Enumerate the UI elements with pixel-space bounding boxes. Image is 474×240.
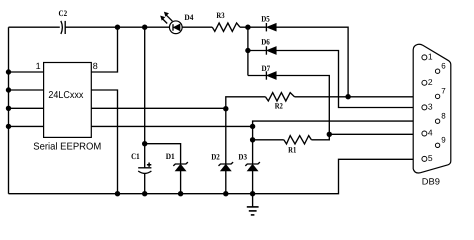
DB9 pin 9	[435, 136, 446, 148]
DB9 pin 1	[422, 52, 433, 62]
DB9 pin 3	[422, 102, 433, 112]
svg-text:D3: D3	[238, 152, 247, 161]
svg-text:3: 3	[428, 102, 433, 112]
node: bottom rail dot / C1	[142, 191, 147, 196]
node: junction R2 output / D5 drop	[346, 94, 351, 99]
wire: top rail R3 to D5	[240, 26, 266, 28]
resistor R2	[265, 93, 294, 111]
wire: IC pin7 right and down to bottom rail	[91, 90, 117, 194]
wire: IC pin4 to left rail	[9, 125, 44, 127]
wire: D6 cathode stub	[248, 50, 267, 52]
wire: drop from pin5 row to D3	[252, 126, 254, 163]
svg-text:24LCxxx: 24LCxxx	[48, 90, 83, 101]
capacitor C2	[59, 9, 68, 34]
svg-text:D5: D5	[261, 14, 270, 23]
svg-text:7: 7	[441, 87, 446, 96]
wire: IC pin3 to left rail	[9, 107, 44, 109]
svg-text:2: 2	[428, 77, 433, 87]
node: junction C1 / D1	[142, 141, 147, 146]
wire: D2 drop from R2 node	[225, 109, 227, 164]
svg-text:D7: D7	[262, 64, 271, 73]
svg-text:6: 6	[441, 61, 446, 70]
wire: top rail left segment to C2	[9, 26, 60, 28]
svg-text:D4: D4	[184, 13, 193, 22]
node: junction pin5 row / R1-D3 drop	[250, 124, 255, 129]
svg-text:C2: C2	[59, 9, 68, 18]
svg-text:8: 8	[93, 61, 98, 71]
wire: D6 anode right, down, to DB9 pin3	[276, 51, 421, 108]
ground	[247, 194, 259, 215]
svg-text:8: 8	[441, 111, 446, 120]
node: junction D7 / R1 / pin4 wire	[327, 132, 332, 137]
wire: IC pin2 to left rail	[9, 89, 44, 91]
diode D5	[261, 14, 276, 31]
svg-text:DB9: DB9	[422, 176, 440, 186]
wire: link to D1 top	[145, 144, 181, 164]
DB9 pin 8	[435, 111, 446, 123]
resistor R3	[212, 11, 240, 32]
node: rail dot pin2	[6, 88, 11, 93]
DB9 pin 2	[422, 77, 433, 87]
wire: drop from top rail node to D6 and D7 rows	[247, 27, 249, 75]
wire: left ground rail vertical	[8, 27, 10, 194]
node: bottom rail dot / pin7 drop	[115, 191, 120, 196]
node: junction R1 left	[250, 137, 255, 142]
wire: R1 left lead	[253, 139, 284, 141]
node: rail dot pin3	[6, 106, 11, 111]
wire: IC pin6 row to R2 node	[91, 107, 226, 109]
node: bottom rail dot / D1	[178, 191, 183, 196]
wire: R2 output to DB9 pin7	[295, 96, 435, 98]
DB9 pin 4	[422, 128, 433, 138]
node: rail dot pin1	[6, 70, 11, 75]
svg-text:1: 1	[428, 52, 433, 62]
resistor R1	[284, 136, 312, 155]
svg-text:9: 9	[441, 136, 446, 145]
IC U1 24LCxxx body	[33, 63, 101, 153]
wire: IC pin1 to left rail	[9, 71, 44, 73]
svg-text:R2: R2	[275, 101, 283, 110]
wire: D7 cathode stub	[248, 75, 267, 77]
LED D4	[161, 12, 194, 33]
zener diode D3	[238, 152, 260, 193]
connector J1 DB9 outline	[413, 44, 451, 173]
svg-text:5: 5	[428, 153, 433, 163]
svg-text:D1: D1	[166, 152, 175, 161]
svg-text:R3: R3	[216, 11, 224, 20]
wire: R2 node up and right to R2	[226, 97, 266, 109]
DB9 pin 6	[435, 61, 446, 73]
node: junction top rail / D6-D7 drop	[246, 25, 251, 30]
wire: D7 anode right then down to R1/pin4 node	[276, 76, 329, 135]
svg-text:Serial EEPROM: Serial EEPROM	[33, 141, 101, 152]
svg-text:D2: D2	[211, 152, 220, 161]
svg-text:C1: C1	[131, 152, 140, 161]
node: rail dot pin4	[6, 124, 11, 129]
wire: top rail from C2 to R3	[65, 26, 212, 28]
diode D7	[262, 64, 277, 80]
wire: IC pin5 row to jog then DB9 pin8	[91, 121, 434, 126]
svg-text:4: 4	[428, 128, 433, 138]
svg-text:D6: D6	[261, 37, 270, 46]
DB9 pin 5	[422, 153, 433, 163]
wire: C1-D1 riser from top rail	[144, 27, 146, 144]
DB9 pin 7	[435, 87, 446, 99]
zener diode D1	[166, 152, 188, 194]
wire: D5 anode right then down to R2 output node	[276, 27, 348, 97]
svg-text:R1: R1	[288, 145, 296, 154]
diode D6	[261, 37, 276, 54]
node: bottom rail dot / D2	[223, 191, 228, 196]
node: junction R2 node / D2 drop	[223, 106, 228, 111]
wire: IC pin8 right and up to top rail	[91, 27, 117, 72]
node: bottom rail dot / ground	[250, 191, 255, 196]
node: junction top rail / pin8 riser	[115, 25, 120, 30]
wire: bottom rail and up to DB9 pin5	[9, 159, 422, 193]
wire: node to DB9 pin4	[329, 133, 421, 135]
node: junction D6 row	[246, 48, 251, 53]
zener diode D2	[211, 152, 233, 193]
node: junction top rail / C1-D1 riser	[142, 25, 147, 30]
capacitor C1	[131, 144, 151, 194]
wire: node down to R1 right end	[311, 134, 329, 140]
svg-text:1: 1	[36, 61, 41, 71]
